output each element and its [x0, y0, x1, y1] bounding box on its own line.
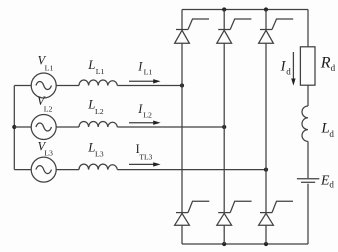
label V_L2 [37, 94, 52, 114]
node bottom rail leg3 junction [264, 242, 268, 246]
source V_L1 [31, 73, 56, 98]
source V_L3 [31, 157, 56, 182]
wire bridge leg 2 [223, 10, 225, 245]
label I_L1 [137, 59, 152, 76]
wire bottom rail [182, 243, 308, 245]
battery Ed [297, 179, 319, 183]
svg-text:L2: L2 [95, 107, 104, 116]
label Ld [320, 121, 334, 139]
wire L_L1 to bridge leg 1 [117, 85, 182, 87]
node top rail leg2 junction [222, 7, 226, 11]
svg-text:L2: L2 [143, 110, 152, 119]
svg-text:L: L [320, 121, 329, 137]
wire top rail [182, 9, 308, 11]
svg-text:L1: L1 [96, 67, 105, 76]
resistor Rd [300, 47, 315, 85]
wire battery to bottom rail [307, 184, 309, 244]
svg-text:L1: L1 [45, 64, 54, 73]
label Ed [320, 173, 334, 190]
thyristor top leg3 [259, 19, 294, 43]
inductor L_L2 [79, 121, 117, 127]
label L_L1 [87, 58, 104, 76]
thyristor bottom leg2 [217, 201, 252, 225]
inductor L_L3 [79, 164, 117, 170]
wire V_L1 to L_L1 [56, 85, 79, 87]
node row3 to leg3 junction [264, 168, 268, 172]
wire bridge leg 1 [181, 10, 183, 245]
label V_L1 [38, 53, 54, 72]
node left bus junction [12, 125, 16, 129]
wire V_L2 to L_L2 [56, 126, 79, 128]
label L_L2 [87, 98, 104, 116]
thyristor bottom leg1 [175, 201, 210, 225]
label L_L3 [87, 140, 104, 158]
svg-text:d: d [329, 180, 334, 190]
wire bus to source V_L3 [14, 169, 31, 171]
inductor L_L1 [79, 80, 117, 86]
thyristor bottom leg3 [259, 201, 293, 225]
node top rail leg3 junction [264, 7, 268, 11]
wire load column top [307, 10, 309, 47]
label Id [280, 58, 292, 76]
svg-text:d: d [286, 67, 291, 77]
label I_TL3 [136, 142, 153, 162]
wire L_L2 to bridge leg 2 [117, 126, 224, 128]
wire bus to source V_L2 [14, 126, 31, 128]
thyristor top leg2 [217, 19, 252, 43]
svg-text:d: d [329, 129, 334, 139]
label Rd [320, 54, 336, 73]
wire bus to source V_L1 [14, 85, 31, 87]
current arrow I_L1 [129, 79, 161, 83]
label I_L2 [137, 102, 152, 119]
svg-text:L2: L2 [44, 105, 53, 114]
source V_L2 [31, 115, 56, 140]
node row2 to leg2 junction [222, 125, 226, 129]
wire left bus [13, 86, 15, 170]
svg-text:I: I [137, 59, 143, 73]
current arrow Id [291, 52, 295, 86]
current arrow I_TL3 [129, 162, 161, 166]
wire bridge leg 3 [265, 10, 267, 245]
label V_L3 [38, 139, 53, 157]
inductor Ld [302, 106, 308, 141]
node bottom rail leg2 junction [222, 242, 226, 246]
thyristor top leg1 [175, 19, 209, 43]
svg-text:L3: L3 [44, 149, 53, 158]
wire resistor to Ld [307, 85, 309, 106]
svg-text:L1: L1 [144, 68, 153, 77]
current arrow I_L2 [129, 121, 161, 125]
svg-text:TL3: TL3 [139, 153, 152, 162]
svg-text:R: R [320, 54, 331, 71]
node row1 to leg1 junction [180, 83, 184, 87]
svg-text:L: L [87, 58, 95, 72]
wire V_L3 to L_L3 [56, 169, 79, 171]
wire L_L3 to bridge leg 3 [117, 169, 266, 171]
svg-text:L3: L3 [95, 149, 104, 158]
wire Ld to battery [307, 141, 309, 178]
svg-text:d: d [331, 63, 336, 73]
